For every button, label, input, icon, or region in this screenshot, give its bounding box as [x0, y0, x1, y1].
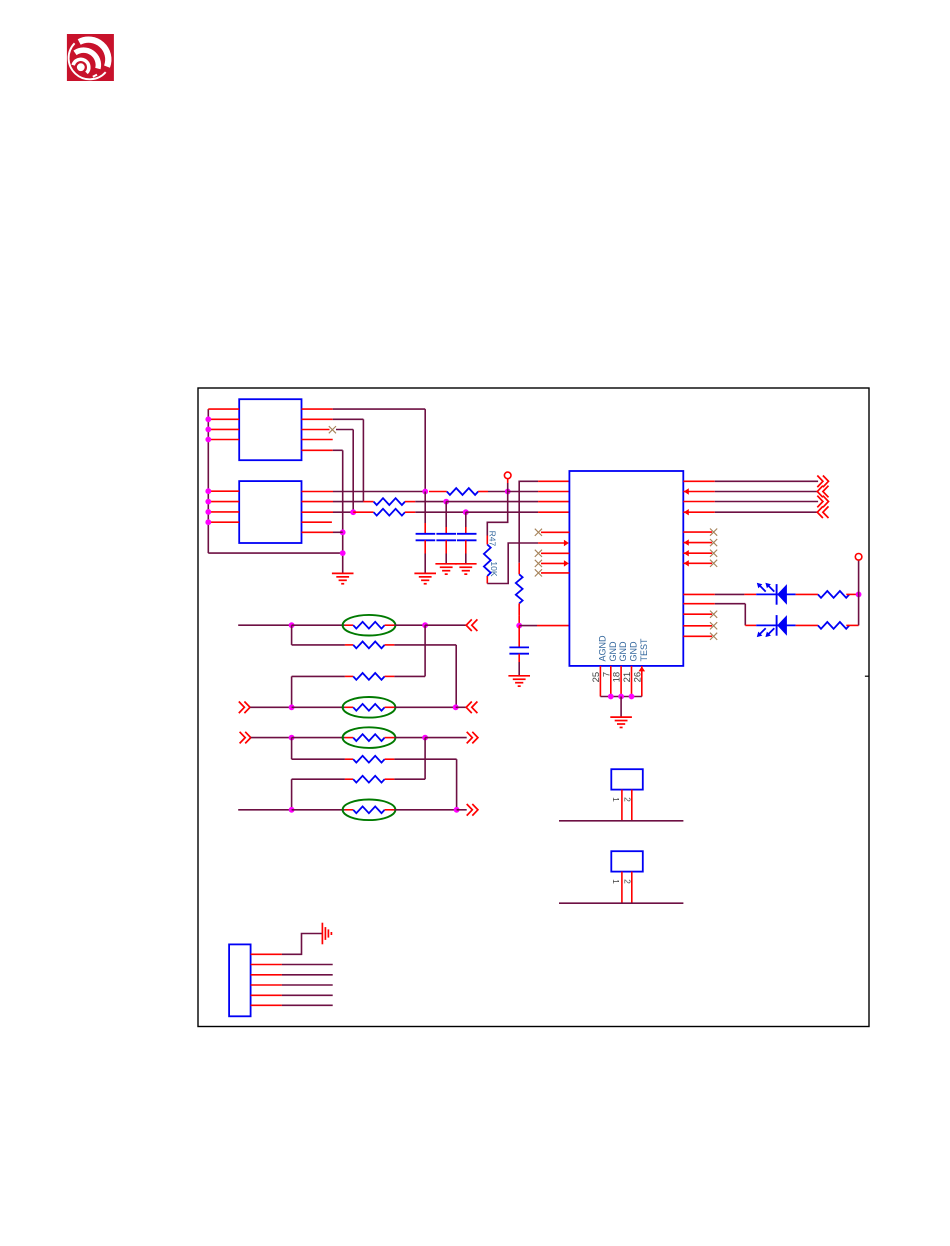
resistor R (vertical) — [518, 563, 520, 575]
Espressif logo — [67, 34, 114, 81]
wire — [425, 737, 467, 739]
wire row8 left — [238, 809, 291, 811]
U4 right pin2 stub — [302, 501, 334, 503]
off-page chevron — [240, 732, 251, 744]
junction dot — [505, 489, 511, 495]
ground GND4 — [455, 563, 477, 565]
junction dot — [205, 416, 211, 422]
junction dot — [629, 694, 635, 700]
IC U3 (top-left) — [239, 399, 301, 460]
main IC pin 7 wire — [610, 666, 612, 697]
ground GND2 — [414, 572, 436, 574]
wire — [292, 624, 345, 626]
wire J3 pin 4 — [282, 984, 333, 986]
capacitor C (below dot) — [509, 646, 529, 648]
off-page chevron — [817, 476, 828, 488]
wire U3.p3 horizontal — [336, 429, 353, 431]
junction dot — [340, 529, 346, 535]
resistor R (net row2) — [345, 644, 353, 646]
wire row5 left — [251, 737, 292, 739]
resistor R (net row7) — [345, 778, 353, 780]
svg-text:2: 2 — [622, 879, 632, 884]
wire row2 drop — [291, 625, 293, 645]
wire J2 rail — [559, 902, 683, 904]
resistor R (net row5, selected) — [345, 737, 353, 739]
wire cap3 top — [465, 512, 467, 527]
wire R47 bottom to TEST row — [487, 543, 538, 584]
U3 left pin 3 stub — [208, 428, 239, 430]
svg-text:10K: 10K — [489, 561, 499, 576]
U4 left pin 4 stub — [208, 521, 239, 523]
wire U3.p2 horizontal — [333, 418, 364, 420]
svg-text:GND: GND — [618, 641, 628, 662]
J2 pin 1 wire — [621, 872, 623, 904]
main IC pin 18 wire — [620, 666, 622, 697]
off-page chevron — [466, 619, 477, 631]
wire cap2 bottom — [445, 540, 447, 553]
capacitor C3 — [457, 533, 477, 535]
capacitor C2 — [436, 533, 456, 535]
junction dot — [350, 509, 356, 515]
wire — [292, 758, 345, 760]
main IC left pin row2 stub — [538, 501, 569, 503]
junction dot — [618, 694, 624, 700]
border zone tick — [865, 675, 869, 677]
junction dot — [454, 807, 460, 813]
svg-text:26: 26 — [632, 672, 643, 683]
x + stub pin — [683, 625, 712, 627]
J3 pin 1 stub — [251, 953, 282, 955]
wire — [425, 624, 466, 626]
x + stub pin — [535, 569, 542, 576]
main IC left pin row1 stub — [538, 491, 569, 493]
ground GND1 — [332, 572, 354, 574]
x + stub pin — [683, 635, 712, 637]
wire U3.p2 vertical — [362, 419, 364, 501]
junction dot — [422, 489, 428, 495]
x + stub pin — [535, 550, 542, 557]
wire cap1 top — [424, 492, 426, 524]
wire — [394, 644, 456, 646]
svg-text:TEST: TEST — [639, 638, 649, 662]
U3 right pin2 stub — [302, 418, 333, 420]
svg-text:18: 18 — [612, 672, 623, 683]
junction dot — [289, 622, 295, 628]
wire left bus vertical — [207, 409, 209, 553]
wire — [394, 706, 455, 708]
U3 left pin 2 stub — [208, 418, 239, 420]
x + stub pin — [535, 529, 542, 536]
wire U3.p5 horizontal — [333, 449, 343, 451]
junction dot — [205, 519, 211, 525]
wire U3.p3 vertical — [352, 430, 354, 513]
wire — [394, 675, 425, 677]
x + stub + arrow pin — [683, 552, 712, 554]
wire row2 to main IC — [446, 501, 538, 503]
U4 left pin 3 stub — [208, 511, 239, 513]
junction dot — [422, 622, 428, 628]
wire circle to row1 — [507, 479, 509, 483]
wire U3.p1 vertical — [424, 409, 426, 491]
LED D2 — [756, 615, 795, 637]
no-connect x on U3.p3 — [329, 426, 336, 433]
resistor R (net row1, selected) — [345, 624, 353, 626]
wire — [394, 758, 456, 760]
connector J3 body — [229, 944, 251, 1016]
main IC LED1 pin — [683, 593, 715, 595]
input arrow into main IC — [564, 540, 569, 546]
junction dot — [205, 488, 211, 494]
x + stub pin — [683, 613, 712, 615]
junction dot — [340, 550, 346, 556]
svg-text:R47: R47 — [487, 531, 497, 547]
wire row3 left riser — [291, 676, 293, 707]
wire U4.p5 — [333, 531, 343, 533]
off-page chevron — [239, 702, 250, 714]
U4 left pin 2 stub — [208, 501, 239, 503]
wire — [394, 809, 456, 811]
wire pullup to R47 — [487, 492, 507, 536]
resistor R (net row4, selected) — [345, 706, 353, 708]
resistor R (row1) — [429, 491, 447, 493]
main IC right pin row — [683, 511, 715, 513]
main IC right pin row — [683, 491, 715, 493]
off-page chevron — [817, 486, 828, 498]
junction dot — [205, 437, 211, 443]
svg-text:GND: GND — [608, 641, 618, 662]
U4 right pin3 stub — [302, 511, 334, 513]
main IC left pin TEST-row stub — [538, 542, 565, 544]
wire ground net vertical — [342, 450, 344, 573]
off-page chevron — [817, 506, 828, 518]
x + stub + arrow pin — [535, 560, 542, 567]
main IC left pin row0 stub — [538, 480, 569, 482]
wire J3 pin 2 — [282, 964, 333, 966]
U4 right pin5 stub — [302, 531, 334, 533]
wire — [292, 737, 345, 739]
wire row2 to cap2 — [415, 501, 446, 503]
wire row2 to row4 — [455, 645, 457, 707]
resistor R (net row6) — [345, 758, 353, 760]
wire row1 to pullup dot — [488, 491, 508, 493]
junction dot — [443, 499, 449, 505]
wire row3 to cap3 — [415, 511, 466, 513]
U3 left pin 4 stub — [208, 439, 239, 441]
wire cap3 bottom — [465, 540, 467, 553]
ground GND5 — [508, 675, 530, 677]
resistor R (LED1) — [796, 593, 818, 595]
U3 right pin5 stub — [302, 449, 333, 451]
U3 right pin1 stub — [302, 408, 333, 410]
pull-up pin circle — [504, 472, 511, 479]
x + stub pin — [683, 531, 712, 533]
svg-text:1: 1 — [611, 797, 621, 802]
J1 pin 2 wire — [631, 790, 633, 821]
wire — [292, 675, 345, 677]
wire — [394, 624, 425, 626]
junction dot — [856, 592, 862, 598]
main IC pin 25 wire — [599, 666, 601, 697]
junction dot — [205, 427, 211, 433]
wire — [457, 809, 467, 811]
off-page chevron — [466, 702, 477, 714]
main IC LED2 pin — [683, 603, 715, 605]
ground GND7 (rotated) — [321, 923, 323, 945]
junction dot — [453, 704, 459, 710]
junction dot — [205, 509, 211, 515]
J2 pin 2 wire — [631, 872, 633, 904]
J3 pin 2 stub — [251, 964, 282, 966]
off-page chevron — [467, 804, 478, 816]
U4 right pin1 stub — [302, 491, 334, 493]
wire row4 left — [250, 706, 291, 708]
TEST pin input arrow — [639, 666, 646, 671]
LED D1 — [756, 583, 795, 605]
resistor R (row3) — [353, 511, 373, 513]
junction dot — [463, 509, 469, 515]
J3 pin 4 stub — [251, 984, 282, 986]
wire J3 pin 3 — [282, 974, 333, 976]
wire row2 — [333, 501, 363, 503]
wire row 625 to main IC — [519, 625, 537, 627]
connector J2 body — [611, 851, 643, 871]
J3 pin 5 stub — [251, 994, 282, 996]
junction dot — [289, 807, 295, 813]
U4 left pin 1 stub — [208, 490, 239, 492]
J3 pin 3 stub — [251, 974, 282, 976]
x + stub + arrow pin — [683, 542, 712, 544]
junction dot — [289, 735, 295, 741]
resistor R (net row8, selected) — [345, 809, 353, 811]
off-page chevron — [467, 732, 478, 744]
wire — [456, 706, 467, 708]
connector J1 body — [611, 769, 643, 789]
U3 right pin4 stub — [302, 439, 333, 441]
wire row7 to row5 — [424, 738, 426, 780]
wire row3 to main IC — [466, 511, 538, 513]
ground GND3 — [435, 563, 457, 565]
wire U3.p1 horizontal — [333, 408, 426, 410]
wire row1 to cap junction — [333, 491, 425, 493]
wire to ground — [620, 697, 622, 717]
wire J3 pin 6 — [282, 1004, 333, 1006]
junction dot — [516, 623, 522, 629]
wire row1 left — [238, 624, 291, 626]
wire cap to ground — [518, 654, 520, 662]
pull-up pin circle — [855, 554, 862, 561]
wire row6 drop — [291, 738, 293, 760]
wire row7 left riser — [291, 779, 293, 810]
wire row3 to row1 — [424, 625, 426, 676]
x + stub + arrow pin — [683, 562, 712, 564]
wire row6 to row8 — [456, 759, 458, 810]
main IC U1 — [569, 471, 683, 666]
junction dot — [205, 499, 211, 505]
wire J3.p1 to ground — [282, 934, 323, 955]
main IC right pin row — [683, 480, 715, 482]
wire — [394, 737, 425, 739]
wire — [292, 809, 345, 811]
wire — [394, 778, 425, 780]
wire left bus bottom run — [208, 552, 342, 554]
svg-text:2: 2 — [622, 797, 632, 802]
resistor R (net row3) — [345, 675, 353, 677]
wire — [292, 644, 345, 646]
IC U4 (bottom-left) — [239, 481, 301, 543]
wire — [292, 778, 345, 780]
capacitor C1 — [416, 533, 436, 535]
wire cap1 bottom — [424, 540, 426, 553]
main IC right pin row — [683, 501, 715, 503]
wire J3 pin 5 — [282, 994, 333, 996]
wire dot to C bottom — [518, 626, 520, 648]
wire J1 rail — [559, 820, 683, 822]
wire row0 corner — [519, 481, 538, 563]
J3 pin 6 stub — [251, 1004, 282, 1006]
wire — [292, 706, 345, 708]
J1 pin 1 wire — [621, 790, 623, 821]
wire row1 to main IC — [508, 491, 538, 493]
schematic sheet border — [198, 388, 869, 1027]
svg-text:1: 1 — [611, 879, 621, 884]
U3 left pin 1 stub — [208, 408, 239, 410]
resistor R47 — [486, 536, 488, 545]
resistor R (row2) — [363, 501, 373, 503]
svg-text:25: 25 — [591, 672, 602, 683]
junction dot — [608, 694, 614, 700]
wire LED rail vertical — [858, 560, 860, 625]
svg-text:GND: GND — [629, 641, 639, 662]
main IC pin 26 wire — [641, 666, 643, 697]
wire row3 — [333, 511, 353, 513]
U3 right pin3 stub — [302, 429, 330, 431]
junction dot — [422, 735, 428, 741]
junction dot — [289, 704, 295, 710]
resistor R (LED2) — [796, 624, 818, 626]
U4 right pin4 stub — [302, 521, 332, 523]
ground GND6 — [610, 716, 632, 718]
off-page chevron — [817, 496, 828, 508]
main IC left pin row3 stub — [538, 511, 569, 513]
main IC pin 21 wire — [631, 666, 633, 697]
svg-text:AGND: AGND — [597, 635, 607, 662]
wire to dot — [518, 616, 520, 626]
wire cap2 top — [445, 502, 447, 527]
ground bus under main IC — [600, 696, 641, 698]
